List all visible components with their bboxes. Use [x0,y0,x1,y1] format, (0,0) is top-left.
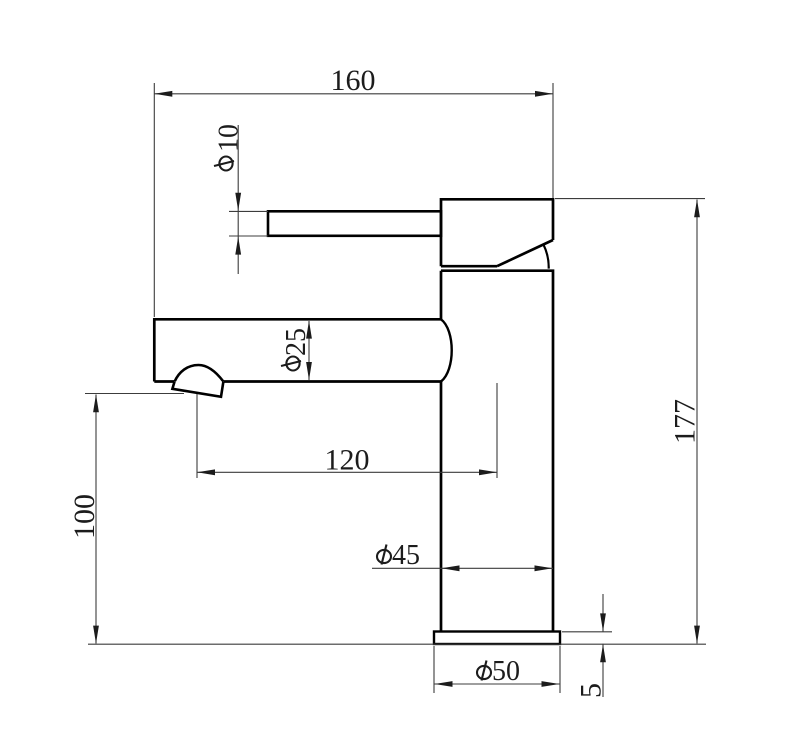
dimension 120 line [197,471,497,473]
phi25 upper arrow (up) [306,321,312,339]
dimension 5 top extension line [562,631,612,633]
dimension 120 right extension line (body centerline) [496,383,498,478]
phi45 leader line [372,567,441,569]
dimension 5 lower arrow (up) [600,644,606,662]
dimension 100 bottom arrow (down) [93,626,99,644]
dimension 160 left arrow [154,91,172,97]
bottom datum line [88,643,706,645]
extension line spout tip vertical [153,83,155,317]
svg-text:177: 177 [669,399,702,444]
dimension 120 left arrow [197,469,215,475]
phi25 lower arrow (down) [306,362,312,380]
dimension 5 upper arrow (down) [600,613,606,631]
dimension 177 top arrow (up) [694,199,700,217]
phi50 dimension line [434,683,560,685]
phi10 leader line [237,125,239,274]
phi50 left extension line [433,646,435,693]
phi45 dimension line [441,567,553,569]
lever travel arc [544,245,549,269]
phi25 text [281,328,312,371]
base plate [434,632,560,645]
dimension 177 line [696,200,698,644]
cap top extension line [555,198,705,200]
svg-text:160: 160 [331,64,376,97]
body bulge arc at spout junction [441,319,452,381]
phi50 right arrow [542,681,560,687]
dimension 100 top arrow (up) [93,394,99,412]
dimension 120 right arrow [479,469,497,475]
phi50 left arrow [435,681,453,687]
spout outline [154,319,441,381]
svg-text:10: 10 [214,124,245,152]
svg-text:5: 5 [575,683,608,698]
aerator tip band [172,382,223,397]
svg-text:100: 100 [68,494,101,539]
phi10 text [214,124,245,171]
phi10 upper arrow (down) [235,193,241,211]
phi50 text [477,656,520,687]
handle lever [268,211,441,236]
phi45 right arrow [535,565,553,571]
phi45 left arrow [442,565,460,571]
dimension 100 line [95,395,97,644]
extension line body right vertical [552,83,554,198]
aerator dome [175,365,224,382]
lever top extension line [229,210,268,212]
svg-text:45: 45 [392,540,420,571]
phi10 lower arrow (up) [235,237,241,255]
lever bottom extension line [229,235,268,237]
dimension 120 left extension line [196,394,198,478]
dimension 5 upper leader segment [602,594,604,632]
phi45 text [377,540,420,571]
cartridge cap [441,199,553,266]
phi50 right extension line [559,646,561,693]
dimension 177 bottom arrow (down) [694,626,700,644]
svg-text:25: 25 [281,328,312,356]
dimension 160 right arrow [535,91,553,97]
phi25 dimension line [308,321,310,380]
dimension 5 lower leader segment [602,644,604,697]
dimension 160 line [154,93,553,95]
body column [441,271,553,631]
svg-text:120: 120 [325,444,370,477]
svg-text:50: 50 [492,656,520,687]
dimension 100 extension line [85,393,184,395]
